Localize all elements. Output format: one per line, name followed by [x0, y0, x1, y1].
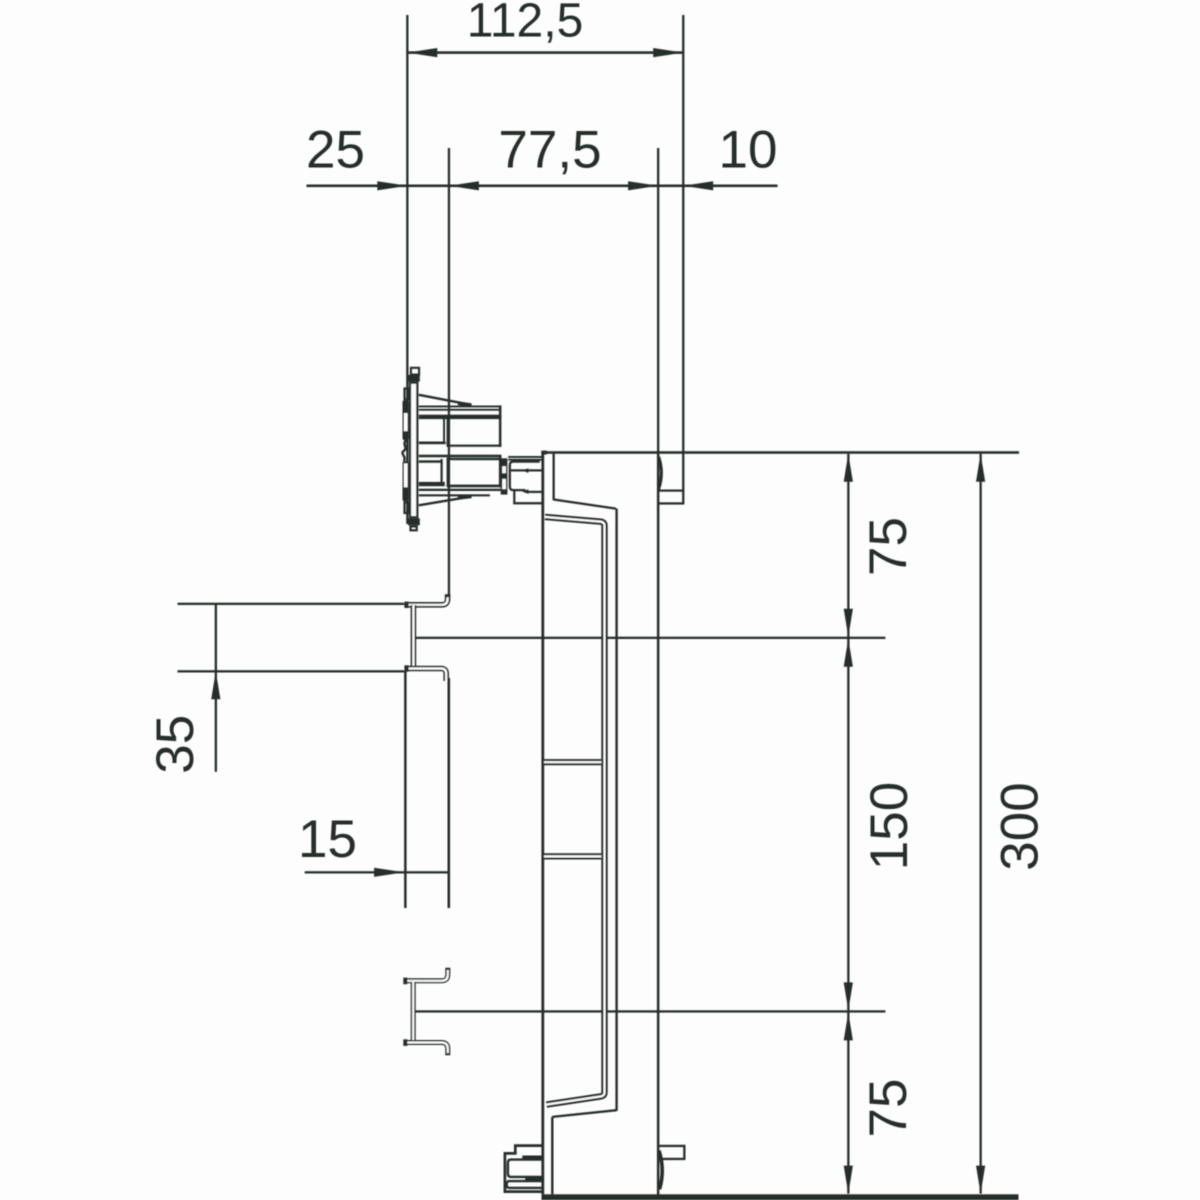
cover panel front line (x=405)	[404, 671, 407, 908]
Z-rail sheet end cap top	[404, 602, 408, 608]
socket lower main box left edge	[447, 458, 449, 486]
svg-text:300: 300	[991, 782, 1050, 870]
dimension line 150	[847, 639, 849, 1011]
duct top surface line	[542, 451, 1020, 454]
upper Z-rail sheet: top flange with stub	[408, 594, 448, 605]
socket front plate	[410, 383, 417, 518]
lower C-rail sheet	[406, 968, 448, 981]
upper Z-rail web	[411, 605, 417, 668]
socket lower main box right edge	[499, 455, 502, 487]
socket upper main box left edge	[447, 419, 449, 447]
socket lower main box top line	[447, 458, 501, 460]
socket upper left box right edge	[443, 419, 445, 444]
extension line left of 77,5 (x=449)	[448, 148, 450, 595]
duct rear flange bottom line (y=503.4)	[659, 502, 684, 504]
inner wall diagonal to partition top	[554, 500, 616, 509]
socket bottom tab	[411, 526, 417, 530]
claw jaw inner line	[511, 469, 543, 471]
socket face upper slot	[404, 413, 408, 431]
svg-text:150: 150	[860, 782, 919, 870]
extension line left of 112,5 (x=407)	[406, 15, 408, 524]
dimension line 75 bottom	[847, 1012, 849, 1193]
socket lower left box top line	[419, 460, 443, 463]
socket upper left box bottom band	[419, 442, 446, 445]
claw segment strip	[501, 458, 508, 494]
socket lower left box right edge	[441, 459, 443, 482]
extension line right of 77,5 (x=658)	[657, 148, 659, 453]
socket face upper nub	[405, 389, 409, 400]
claw step vertical	[513, 490, 515, 503]
socket upper main box right edge	[499, 405, 502, 446]
claw jaw lower wedge	[522, 489, 528, 494]
socket bottom cap	[408, 518, 420, 525]
duct rear top knockout crescent	[659, 457, 662, 489]
left reference line upper (y=604)	[178, 603, 405, 605]
dimension line 35	[215, 604, 217, 772]
socket face lower nub	[405, 502, 409, 513]
socket upper main box bottom line	[447, 445, 502, 447]
claw top line 2	[508, 459, 542, 461]
right reference line mid-lower (y=1011)	[415, 1010, 886, 1012]
bottom latch lower tooth	[525, 1178, 542, 1181]
socket lower left box bottom band	[419, 482, 445, 486]
Z-rail sheet end cap bottom	[404, 665, 408, 671]
partition foot vertical (x=552)	[551, 1117, 553, 1194]
dimension line 75 top	[847, 454, 849, 637]
socket body mid line	[419, 455, 502, 458]
claw jaw outline	[510, 462, 540, 491]
C-rail end cap bottom	[403, 1039, 407, 1046]
bottom latch outline	[505, 1146, 542, 1192]
floor line (thick)	[542, 1194, 1019, 1200]
svg-text:75: 75	[859, 517, 918, 576]
duct rear bottom tab top line	[658, 1145, 684, 1147]
compartment separator upper (double line)	[544, 759, 601, 765]
cover panel rear line (x=449)	[448, 678, 451, 908]
duct left inner wall line	[553, 454, 555, 501]
socket body upper thick line	[419, 415, 502, 419]
socket top cap	[408, 375, 420, 382]
partition foot diagonal	[552, 1110, 616, 1117]
left reference line lower (y=671)	[178, 670, 405, 672]
dimension line 25 / 77,5 / 10	[307, 185, 778, 188]
svg-text:112,5: 112,5	[467, 0, 584, 47]
upper Z-rail bottom flange with down-curl	[408, 669, 447, 682]
claw jaw upper wedge	[522, 468, 528, 473]
claw jaw lower line	[527, 491, 543, 493]
svg-text:75: 75	[859, 1079, 918, 1138]
svg-text:35: 35	[146, 715, 205, 774]
svg-text:25: 25	[306, 121, 365, 180]
svg-text:15: 15	[298, 810, 357, 869]
bottom latch upper slot	[508, 1160, 542, 1177]
duct rear bottom tab bottom line	[662, 1158, 686, 1160]
C-rail end cap top	[403, 978, 407, 985]
duct left outer wall	[541, 451, 544, 1194]
partition wall vertical (x=616)	[615, 509, 617, 1111]
compartment separator lower (double line)	[544, 853, 601, 859]
socket body lower line 2	[419, 494, 490, 496]
bottom latch upper tooth	[522, 1156, 542, 1159]
socket top tab	[411, 368, 419, 375]
dimension line 15	[305, 871, 449, 873]
socket body top diagonal	[419, 395, 472, 405]
claw top line 1	[508, 456, 542, 458]
bottom latch lower slot	[507, 1181, 542, 1188]
dimension line 300	[980, 454, 982, 1194]
socket body lower line 1	[419, 489, 502, 491]
right reference line mid-upper (y=638)	[415, 637, 886, 639]
socket face upper bump	[403, 400, 409, 440]
inner lining sheet (double line)	[545, 517, 605, 1105]
socket body upper thin line 1	[419, 406, 502, 408]
svg-text:77,5: 77,5	[498, 121, 601, 180]
claw step bottom line	[513, 502, 542, 504]
socket face lower slot	[404, 463, 408, 487]
duct rear bottom tab right edge	[683, 1145, 685, 1159]
duct top-left corner joint	[541, 451, 547, 455]
svg-text:10: 10	[719, 121, 778, 180]
duct rear bottom knockout crescent	[659, 1151, 662, 1190]
duct right outer wall	[657, 451, 660, 1195]
dimension line 112,5	[407, 51, 683, 54]
socket body upper thin line 2	[419, 409, 502, 411]
socket lower main box bottom band	[447, 485, 502, 488]
extension line right of 112,5 (x=683)	[682, 15, 684, 503]
socket body bottom diagonal	[419, 496, 472, 505]
duct rear flange groove line (y=490.6)	[659, 490, 683, 492]
socket face centre wave	[402, 440, 406, 461]
socket face lower bump	[403, 461, 409, 501]
